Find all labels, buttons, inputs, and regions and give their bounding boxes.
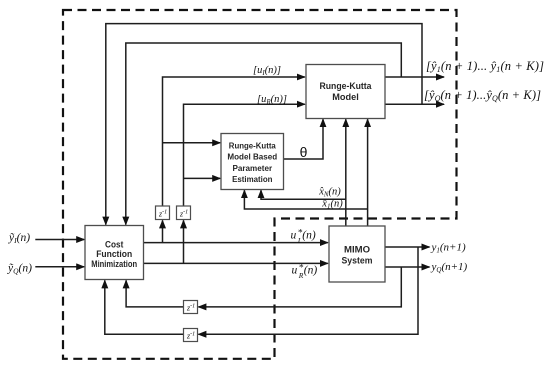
svg-text:[uR(n)]: [uR(n)] [257, 94, 287, 106]
wire: x1hat tap into Parameter Estimation bottom [244, 190, 367, 209]
svg-text:Model Based: Model Based [227, 152, 277, 162]
wire: uI*(n) from Cost Function to MIMO System [144, 242, 328, 244]
block: delay z4 [184, 329, 198, 342]
svg-text:[ŷ1(n + 1)... ŷ1(n + K)]: [ŷ1(n + 1)... ŷ1(n + K)] [426, 59, 544, 74]
wire: uR branch into Parameter Estimation [184, 177, 221, 179]
block: delay z3 [184, 301, 198, 314]
wire: uR*(n) from Cost Function to MIMO System [144, 262, 328, 264]
wire: delay z4 to Cost Function bottom [105, 280, 184, 334]
wire: x1hat vertical from MIMO top to Runge-Kutta Model [367, 119, 369, 226]
wire: feedback yQhat to Cost Function top [106, 24, 422, 225]
svg-text:ỹI(n): ỹI(n) [8, 232, 30, 245]
wire: uR* tap up into z-1 delay z2 [183, 220, 185, 263]
svg-text:x̂N(n): x̂N(n) [318, 186, 341, 198]
wire: feedback y1hat to Cost Function top [126, 43, 402, 225]
svg-text:Model: Model [332, 92, 359, 102]
wire: yI~ input into Cost Function [35, 239, 84, 241]
block: Cost Function Minimization [85, 226, 144, 280]
wire: yQ~ input into Cost Function [35, 266, 84, 268]
wire: xNhat vertical from MIMO top to Runge-Kutta Model [345, 119, 347, 226]
wire: [uR(n)] into Runge-Kutta Model [184, 104, 305, 206]
block: Runge-Kutta Model Based Parameter Estimation [221, 134, 284, 190]
svg-text:Function: Function [96, 249, 132, 259]
block: delay z1 [156, 206, 170, 220]
wire: delay z3 to Cost Function bottom [126, 280, 183, 307]
svg-text:θ: θ [300, 144, 308, 160]
svg-text:MIMO: MIMO [344, 245, 370, 256]
svg-text:ỹQ(n): ỹQ(n) [7, 262, 32, 275]
svg-text:Minimization: Minimization [91, 259, 137, 269]
svg-text:[ŷQ(n + 1)...ŷQ(n + K)]: [ŷQ(n + 1)...ŷQ(n + K)] [424, 88, 541, 103]
svg-text:Estimation: Estimation [232, 174, 272, 184]
block: Runge-Kutta Model [306, 65, 385, 119]
svg-text:Runge-Kutta: Runge-Kutta [320, 81, 373, 91]
svg-text:y1(n+1): y1(n+1) [431, 242, 466, 255]
svg-text:[uI(n)]: [uI(n)] [253, 65, 281, 77]
wire: yQhat output arrow [385, 103, 444, 105]
wire: yQ feedback down to delay z3 [198, 267, 401, 307]
wire: uI branch into Parameter Estimation [163, 142, 221, 144]
svg-text:Parameter: Parameter [232, 163, 272, 173]
svg-text:yQ(n+1): yQ(n+1) [431, 261, 468, 274]
wire: yQ(n+1) output arrow [385, 266, 430, 268]
svg-text:Runge-Kutta: Runge-Kutta [229, 140, 276, 150]
wire: y1hat output arrow [385, 76, 444, 78]
wire: y1(n+1) output arrow [385, 246, 430, 248]
svg-text:System: System [342, 256, 373, 267]
block: delay z2 [177, 206, 191, 220]
dashed system boundary [63, 10, 457, 359]
svg-text:Cost: Cost [105, 239, 123, 249]
wire: uI* tap up into z-1 delay z1 [162, 220, 164, 242]
wire: [uI(n)] into Runge-Kutta Model [163, 77, 305, 206]
wire: theta from Parameter Estimation to Runge-Kutta Model [284, 119, 323, 159]
wire: y1 feedback down to delay z4 [198, 247, 418, 334]
block: MIMO System [329, 226, 385, 282]
svg-text:x̂1(n): x̂1(n) [321, 199, 343, 211]
wire: xNhat tap into Parameter Estimation bottom [261, 190, 346, 199]
